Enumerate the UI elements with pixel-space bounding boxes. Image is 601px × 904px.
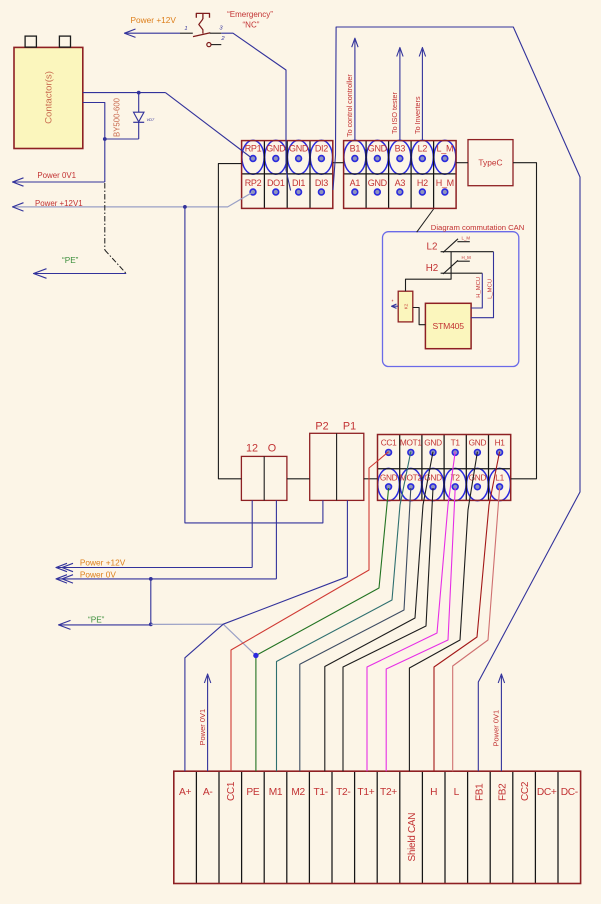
svg-text:VD7: VD7 bbox=[147, 117, 156, 122]
svg-text:CC1: CC1 bbox=[381, 437, 397, 447]
svg-text:1: 1 bbox=[184, 26, 187, 32]
svg-text:FB1: FB1 bbox=[475, 783, 486, 801]
svg-text:GND: GND bbox=[380, 473, 398, 483]
svg-text:“PE”: “PE” bbox=[62, 256, 79, 265]
svg-text:RP2: RP2 bbox=[245, 178, 262, 188]
svg-text:DI3: DI3 bbox=[315, 178, 328, 188]
svg-text:PE: PE bbox=[246, 787, 259, 798]
svg-text:TypeC: TypeC bbox=[478, 157, 502, 167]
svg-text:DC+: DC+ bbox=[537, 787, 557, 798]
svg-text:T1: T1 bbox=[451, 437, 461, 447]
svg-text:DC-: DC- bbox=[561, 787, 578, 798]
svg-text:A+: A+ bbox=[179, 787, 191, 798]
svg-text:T2+: T2+ bbox=[380, 787, 397, 798]
svg-text:“Emergency”: “Emergency” bbox=[227, 10, 273, 19]
svg-text:To control controller: To control controller bbox=[345, 74, 354, 137]
svg-text:T2-: T2- bbox=[336, 787, 350, 798]
svg-text:H_MCU: H_MCU bbox=[476, 277, 482, 298]
svg-text:K2: K2 bbox=[403, 303, 408, 309]
svg-text:L2: L2 bbox=[418, 143, 428, 153]
svg-text:Contactor(s): Contactor(s) bbox=[44, 71, 55, 124]
svg-text:12: 12 bbox=[246, 443, 258, 455]
svg-text:GND: GND bbox=[368, 178, 388, 188]
svg-text:L2: L2 bbox=[427, 242, 438, 253]
svg-text:To Inverters: To Inverters bbox=[413, 96, 422, 134]
svg-text:P2: P2 bbox=[315, 421, 328, 433]
svg-text:RP1: RP1 bbox=[245, 143, 262, 153]
svg-text:L1: L1 bbox=[495, 473, 504, 483]
svg-text:H_M: H_M bbox=[436, 178, 454, 188]
svg-text:T1+: T1+ bbox=[357, 787, 374, 798]
svg-text:B3: B3 bbox=[395, 143, 406, 153]
svg-text:Power +12V: Power +12V bbox=[131, 15, 177, 25]
svg-text:L: L bbox=[454, 787, 460, 798]
svg-text:Power 0V1: Power 0V1 bbox=[37, 171, 76, 180]
svg-text:DI1: DI1 bbox=[292, 178, 305, 188]
svg-text:M1: M1 bbox=[269, 787, 283, 798]
svg-text:Power 0V1: Power 0V1 bbox=[198, 709, 207, 746]
svg-text:DO1: DO1 bbox=[267, 178, 285, 188]
svg-text:L_M: L_M bbox=[462, 236, 471, 241]
svg-text:DI2: DI2 bbox=[315, 143, 328, 153]
svg-text:L_MCU: L_MCU bbox=[487, 279, 493, 299]
svg-text:L_M: L_M bbox=[437, 143, 454, 153]
svg-text:T1-: T1- bbox=[314, 787, 328, 798]
svg-text:H_M: H_M bbox=[462, 255, 472, 260]
svg-text:O: O bbox=[268, 443, 276, 455]
svg-text:GND: GND bbox=[424, 437, 442, 447]
svg-text:Power +12V: Power +12V bbox=[80, 558, 126, 568]
svg-text:FB2: FB2 bbox=[497, 783, 508, 801]
svg-text:MOT1: MOT1 bbox=[400, 437, 423, 447]
svg-text:MOT2: MOT2 bbox=[400, 473, 423, 483]
svg-text:CC1: CC1 bbox=[226, 781, 237, 801]
svg-text:*: * bbox=[392, 300, 394, 306]
svg-text:To ISO tester: To ISO tester bbox=[390, 91, 399, 134]
svg-text:GND: GND bbox=[469, 473, 487, 483]
svg-text:Diagram commutation CAN: Diagram commutation CAN bbox=[431, 223, 525, 232]
svg-text:B1: B1 bbox=[350, 143, 361, 153]
svg-text:H1: H1 bbox=[495, 437, 506, 447]
svg-text:Power 0V1: Power 0V1 bbox=[492, 710, 501, 747]
svg-text:A1: A1 bbox=[350, 178, 361, 188]
svg-text:H: H bbox=[430, 787, 437, 798]
svg-text:BY500-600: BY500-600 bbox=[113, 97, 122, 137]
svg-text:Shield CAN: Shield CAN bbox=[407, 813, 418, 862]
svg-text:GND: GND bbox=[469, 437, 487, 447]
svg-text:H2: H2 bbox=[426, 263, 439, 274]
svg-text:“NC”: “NC” bbox=[243, 21, 260, 30]
svg-text:CC2: CC2 bbox=[520, 781, 531, 801]
svg-text:A-: A- bbox=[203, 787, 213, 798]
svg-text:GND: GND bbox=[289, 143, 309, 153]
svg-text:GND: GND bbox=[368, 143, 388, 153]
svg-text:“PE”: “PE” bbox=[88, 616, 105, 625]
svg-text:P1: P1 bbox=[343, 421, 356, 433]
svg-text:H2: H2 bbox=[417, 178, 428, 188]
svg-text:GND: GND bbox=[266, 143, 286, 153]
svg-text:STM405: STM405 bbox=[433, 321, 465, 331]
svg-text:M2: M2 bbox=[291, 787, 305, 798]
svg-text:A3: A3 bbox=[395, 178, 406, 188]
svg-text:GND: GND bbox=[424, 473, 442, 483]
svg-text:Power 0V: Power 0V bbox=[80, 569, 116, 579]
